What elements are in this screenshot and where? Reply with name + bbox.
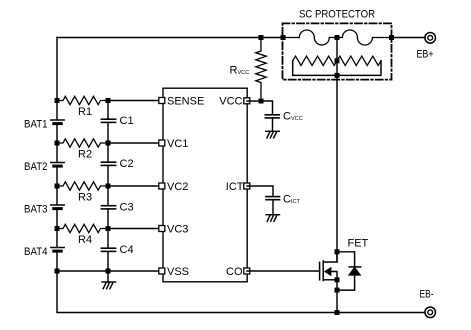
- svg-text:VSS: VSS: [167, 266, 189, 278]
- node cap line 5: [106, 269, 111, 274]
- svg-text:VCC: VCC: [219, 96, 242, 108]
- capacitor C4: [101, 229, 115, 272]
- wire SENSE row: [108, 100, 160, 102]
- terminal EB-: [425, 307, 436, 318]
- svg-text:R3: R3: [78, 191, 92, 203]
- wire ICT to Cict: [247, 186, 273, 196]
- svg-text:BAT1: BAT1: [24, 119, 48, 131]
- pin VC2: [159, 183, 165, 189]
- node FET drain: [335, 249, 340, 254]
- pin VC3: [159, 226, 165, 232]
- svg-text:C3: C3: [120, 202, 134, 214]
- capacitor C1: [101, 101, 115, 144]
- pin VC1: [159, 140, 165, 146]
- fuse element 2: [337, 30, 392, 45]
- pin CO: [244, 268, 250, 274]
- node VCC junction: [259, 99, 264, 104]
- node heater bottom: [335, 73, 340, 78]
- svg-text:C1: C1: [120, 115, 134, 127]
- wire VSS row: [57, 270, 160, 272]
- wire heater to FET drain: [336, 75, 338, 262]
- node bat rail 3: [55, 184, 60, 189]
- svg-text:BAT2: BAT2: [24, 161, 48, 173]
- diode body: [337, 252, 361, 290]
- capacitor C2: [101, 143, 115, 186]
- node fuse center: [335, 35, 340, 40]
- wire VC3 row: [108, 228, 160, 230]
- SC protector dashed box: [283, 23, 392, 79]
- node protector right terminal: [389, 35, 394, 40]
- ground below C line: [102, 271, 116, 289]
- pin ICT: [244, 183, 250, 189]
- svg-text:R4: R4: [78, 234, 92, 246]
- ground below Cict: [266, 215, 280, 222]
- node FET source: [335, 277, 340, 282]
- wire VC2 row: [108, 185, 160, 187]
- battery BAT1: [51, 120, 64, 143]
- node cap line 4: [106, 226, 111, 231]
- node bat rail 2: [55, 141, 60, 146]
- transistor FET: [320, 252, 337, 281]
- battery BAT3: [51, 186, 64, 229]
- heater frame wires: [293, 61, 381, 76]
- wire top rail: [57, 37, 283, 39]
- svg-text:R1: R1: [78, 106, 92, 118]
- capacitor C3: [101, 186, 115, 229]
- resistor R1: [57, 96, 108, 104]
- battery BAT2: [51, 143, 64, 186]
- resistor Rvcc: [256, 38, 266, 102]
- svg-text:EB+: EB+: [417, 49, 434, 61]
- svg-text:VC2: VC2: [167, 181, 188, 193]
- svg-text:SC PROTECTOR: SC PROTECTOR: [299, 9, 375, 21]
- wire left battery rail top segment: [56, 38, 58, 120]
- pin SENSE: [159, 98, 165, 104]
- node bat rail 5: [55, 269, 60, 274]
- svg-text:ICT: ICT: [226, 181, 244, 193]
- svg-text:BAT4: BAT4: [24, 246, 48, 258]
- heater resistor right: [337, 56, 381, 65]
- svg-text:R2: R2: [78, 148, 92, 160]
- svg-text:VC3: VC3: [167, 224, 188, 236]
- node bat rail 4: [55, 226, 60, 231]
- node cap line 1: [106, 98, 111, 103]
- resistor R2: [57, 139, 108, 147]
- terminal EB+: [425, 33, 436, 44]
- node heater center: [335, 58, 340, 63]
- pin VSS: [159, 268, 165, 274]
- wire CO to gate: [247, 270, 320, 272]
- wire left rail bottom + bottom rail: [57, 271, 425, 313]
- wire fuse center to heater center: [336, 38, 338, 76]
- svg-text:CO: CO: [226, 266, 243, 278]
- svg-text:SENSE: SENSE: [167, 96, 204, 108]
- node cap line 3: [106, 184, 111, 189]
- node diode anode: [335, 288, 340, 293]
- resistor R3: [57, 182, 108, 190]
- battery BAT4: [51, 229, 64, 272]
- svg-text:FET: FET: [348, 238, 369, 250]
- capacitor Cvcc: [261, 101, 279, 131]
- pin VCC: [244, 98, 250, 104]
- svg-text:VC1: VC1: [167, 138, 188, 150]
- node top rail Rvcc tap: [259, 35, 264, 40]
- svg-text:EB-: EB-: [420, 289, 434, 301]
- ground below Cvcc: [266, 131, 280, 138]
- node bottom rail: [335, 310, 340, 315]
- fuse element 1: [283, 30, 337, 45]
- wire VC1 row: [108, 142, 160, 144]
- node bat rail 1: [55, 98, 60, 103]
- node cap line 2: [106, 141, 111, 146]
- resistor R4: [57, 224, 108, 232]
- node protector left terminal: [281, 35, 286, 40]
- op-amp U1 IC body: [163, 88, 247, 282]
- heater resistor left: [293, 56, 337, 65]
- svg-text:C4: C4: [120, 244, 134, 256]
- wire FET source down: [336, 280, 338, 313]
- wire VCC pin to node: [247, 100, 261, 102]
- svg-text:C2: C2: [120, 158, 134, 170]
- capacitor Cict: [266, 197, 280, 215]
- svg-text:BAT3: BAT3: [24, 204, 48, 216]
- wire protector to EB+: [392, 37, 425, 39]
